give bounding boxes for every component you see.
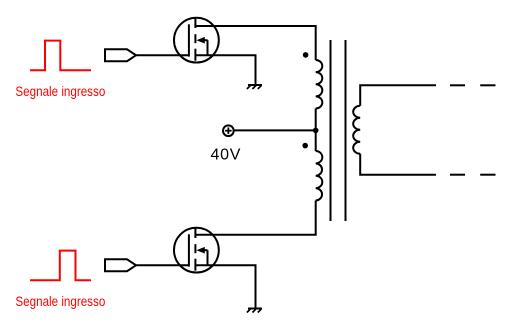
wire: primary bottom to Q2 drain: [195, 201, 315, 235]
chassis ground (lower): [247, 309, 262, 313]
chassis ground (upper): [247, 85, 262, 89]
wire: Q1 drain to primary top: [195, 26, 315, 60]
n-channel MOSFET Q1 (upper): [174, 18, 219, 63]
wire: input tag to Q1 gate: [136, 54, 189, 56]
transformer primary upper winding: [316, 60, 323, 109]
DC supply node +40V: [223, 125, 234, 136]
svg-text:40V: 40V: [211, 147, 242, 164]
transformer primary lower winding: [316, 151, 323, 201]
wire: secondary top dashed continuation: [450, 84, 496, 86]
transformer secondary winding: [353, 106, 360, 154]
input pulse waveform V2 (lower): [30, 251, 91, 281]
wire: secondary bottom: [360, 154, 436, 175]
input tag (upper): [105, 49, 136, 61]
junction dot (center tap): [313, 128, 319, 134]
input pulse waveform V1 (upper): [30, 41, 91, 71]
svg-text:Segnale ingresso: Segnale ingresso: [15, 293, 105, 309]
wire: 40V to center tap: [235, 129, 316, 131]
input tag (lower): [105, 259, 136, 271]
wire: secondary top: [360, 85, 436, 106]
wire: Q2 source to ground: [195, 265, 255, 308]
wire: primary center tap vertical: [315, 109, 317, 152]
svg-text:Segnale ingresso: Segnale ingresso: [15, 83, 105, 99]
transformer core: [331, 40, 346, 221]
wire: secondary bottom dashed continuation: [450, 174, 496, 176]
wire: Q1 source to ground: [195, 55, 255, 85]
n-channel MOSFET Q2 (lower): [174, 228, 219, 273]
polarity dot (primary upper): [303, 52, 309, 58]
polarity dot (primary lower): [302, 143, 308, 149]
wire: input tag to Q2 gate: [136, 264, 189, 266]
